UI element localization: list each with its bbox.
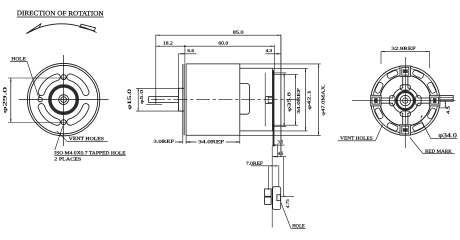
dim phi5.0 shelf xyxy=(146,103,162,105)
rear face extension up (60.0/4.3) xyxy=(273,45,275,70)
dim 4.3 arrows xyxy=(274,53,278,54)
can front face xyxy=(185,64,187,135)
label VENT HOLES underline xyxy=(67,140,108,142)
dim phi47.0MAX arrows xyxy=(318,64,319,68)
title underline xyxy=(17,16,104,18)
svg-text:34.0REF: 34.0REF xyxy=(198,139,225,144)
dim phi15.0 arrows xyxy=(138,88,139,91)
dim 85.0 line xyxy=(156,34,281,36)
terminal ext vertical xyxy=(283,157,285,196)
svg-text:18.2: 18.2 xyxy=(163,40,174,45)
dim 18.2/60.0 shared tick xyxy=(184,45,186,47)
left view horizontal centerline xyxy=(19,99,109,101)
ext phi42.1 top xyxy=(272,67,307,69)
dim phi29.0 arrow bottom xyxy=(10,119,11,123)
phi5 arrow at shaft bottom edge xyxy=(155,100,156,103)
left view vent slot SW xyxy=(38,104,60,126)
ext phi35.8 top xyxy=(272,72,286,74)
rotation arrow open tail right xyxy=(80,24,96,31)
leader HOLE arrowhead xyxy=(39,95,41,99)
svg-text:4.5: 4.5 xyxy=(445,105,450,114)
dim phi42.1 arrows xyxy=(305,68,306,72)
rear face thin extension down xyxy=(271,147,273,228)
dim 3.0REF line-arrow left xyxy=(175,141,183,143)
dim 34.0REF arrows xyxy=(295,74,296,78)
dim 6.6 line xyxy=(179,53,197,55)
rear section top line xyxy=(240,67,273,69)
bearing boss face xyxy=(178,88,180,111)
ext 7.0REF left xyxy=(268,166,270,190)
svg-text:HOLE: HOLE xyxy=(11,57,26,62)
left view center dot xyxy=(63,99,64,100)
leader HOLE to small hole xyxy=(27,61,38,97)
dim 4.5 right ext lower xyxy=(439,107,449,109)
right view oval hole E xyxy=(416,95,421,105)
svg-text:4.75: 4.75 xyxy=(285,199,290,209)
svg-text:4.5: 4.5 xyxy=(278,151,284,156)
left view tapped hole bottom xyxy=(61,120,66,125)
left view boss ring outline inner xyxy=(51,87,76,112)
right view crimp tab W xyxy=(371,95,381,106)
dim 18.2/60.0 line xyxy=(156,45,274,47)
svg-text:φ47.0MAX.: φ47.0MAX. xyxy=(320,84,325,116)
dim 32.9REF ext left xyxy=(380,52,382,64)
dim 4.3 line xyxy=(265,53,281,55)
right view center dot xyxy=(405,100,406,101)
right view E terminal outline xyxy=(440,95,453,101)
left view vent slot NE xyxy=(67,74,89,96)
dim 7.0REF arrows xyxy=(269,165,273,166)
dim 3.0REF line-arrow right xyxy=(186,141,191,143)
leader VENT HOLES right xyxy=(375,125,382,141)
endbell rear edge xyxy=(271,68,273,131)
right view petal vent SE xyxy=(408,103,431,126)
rotation arrow open head left xyxy=(26,24,40,34)
leader HOLE bottom xyxy=(281,203,291,229)
right view rim vent window 4 xyxy=(386,122,398,131)
extension line can face up xyxy=(184,46,186,64)
dim 7.0REF line xyxy=(251,165,279,167)
ext 34.0REF bottom xyxy=(272,124,297,126)
dim phi29.0 arrow top xyxy=(10,78,11,82)
svg-text:60.0: 60.0 xyxy=(218,40,229,45)
leader phi34.0 xyxy=(421,120,431,139)
left view small hole left xyxy=(38,97,42,101)
ext phi47.0 top xyxy=(240,63,321,65)
svg-text:7.0REF: 7.0REF xyxy=(246,161,264,166)
dim phi42.1 line xyxy=(305,68,307,131)
svg-text:2 PLACES: 2 PLACES xyxy=(54,156,82,161)
right view rim vent window 3 xyxy=(412,122,424,131)
dim phi15.0 line xyxy=(137,88,139,111)
label RED MARK underline xyxy=(423,153,455,155)
can top line xyxy=(186,63,240,65)
svg-text:6.6: 6.6 xyxy=(187,48,194,53)
dim 60.0 arrow right xyxy=(271,46,275,47)
terminal body rounded xyxy=(273,187,281,210)
front plate line 1 xyxy=(182,64,184,135)
right view crimp tab E xyxy=(430,95,440,106)
extension boss tip down xyxy=(178,54,180,89)
right view oval hole N xyxy=(400,85,410,90)
leader RED MARK xyxy=(410,138,423,154)
right view shaft circle xyxy=(403,98,408,103)
dim 4.5 right line xyxy=(444,101,446,108)
right view E terminal inner line 1 xyxy=(440,96,453,98)
svg-text:φ42.1: φ42.1 xyxy=(306,89,311,110)
dim 3.5 arrows xyxy=(272,144,276,145)
label HOLE bottom underline xyxy=(291,227,306,229)
right view petal vent NE xyxy=(408,75,431,98)
left view vent slot SE xyxy=(67,104,89,126)
dim 85.0 arrow right xyxy=(277,35,281,36)
right view rim vent window 5 xyxy=(374,107,383,119)
right view oval hole S xyxy=(400,111,410,116)
can bottom line xyxy=(186,134,240,136)
ext phi47.0 bottom xyxy=(240,134,321,136)
shaft tip edge xyxy=(148,97,150,103)
svg-text:4.3: 4.3 xyxy=(266,48,273,53)
svg-text:φ5.0: φ5.0 xyxy=(139,89,144,104)
svg-text:3.0REF: 3.0REF xyxy=(153,139,174,144)
dim 34.0REF bottom label xyxy=(197,139,227,144)
right view crimp tab N xyxy=(400,66,411,76)
dim phi35.8 line xyxy=(283,73,285,127)
rear bearing bump inner bottom xyxy=(268,101,272,103)
right view rim vent window 6 xyxy=(374,82,383,94)
right view rim vent window 2 xyxy=(427,107,436,119)
left view vertical centerline xyxy=(63,55,65,146)
shaft bottom line xyxy=(149,102,179,104)
bearing boss top xyxy=(179,87,185,89)
ext 7.0REF right xyxy=(278,166,280,186)
shaft top line xyxy=(149,96,179,98)
svg-text:ISO M4.0X0.7 TAPPED HOLE: ISO M4.0X0.7 TAPPED HOLE xyxy=(54,150,126,155)
right view outer rim circle xyxy=(371,66,440,135)
dim 32.9REF ext right xyxy=(429,52,431,68)
dim phi15.0 ext top xyxy=(136,87,179,89)
label phi34.0 underline xyxy=(431,137,458,139)
dim phi47.0MAX line xyxy=(318,64,320,135)
dim 4.5 arrows xyxy=(272,156,276,157)
dim 6.6 arrows xyxy=(179,53,183,54)
left view vent slot NW xyxy=(38,74,60,96)
left view tapped hole top xyxy=(61,75,66,80)
right view crimp tab S xyxy=(400,125,411,135)
dim 34.0REF bottom line xyxy=(186,141,240,143)
svg-text:φ15.0: φ15.0 xyxy=(128,88,133,110)
left view shaft circle xyxy=(59,95,69,105)
dim 4.5 right arrows xyxy=(445,101,446,104)
rear bearing bump inner vertical xyxy=(267,96,269,103)
dim 32.9REF arrows xyxy=(381,51,385,52)
terminal hole window xyxy=(277,195,281,201)
svg-text:φ29.0: φ29.0 xyxy=(3,86,9,113)
dim 32.9REF line xyxy=(381,51,430,53)
can step vertical xyxy=(239,64,241,135)
svg-text:32.9REF: 32.9REF xyxy=(391,46,416,51)
dim 85.0 arrow left xyxy=(156,35,160,36)
leader ISO note to bottom hole xyxy=(55,126,63,150)
right view horizontal centerline xyxy=(352,100,456,102)
phi5 arrow at shaft top edge xyxy=(155,97,156,100)
note ISO underline xyxy=(54,154,125,156)
right view vertical centerline xyxy=(404,57,406,148)
right view inner rim circle xyxy=(373,68,438,133)
rear bearing bump inner top xyxy=(268,97,272,99)
left view inner rim circle xyxy=(29,65,97,133)
ext 3.0REF right xyxy=(185,135,187,143)
right view rim vent window 1 xyxy=(427,82,436,94)
right view endbell circle phi34 xyxy=(380,75,431,126)
rear bearing bump xyxy=(265,96,272,103)
dim phi29.0 dimension line xyxy=(10,78,12,123)
dim 34.0REF bottom arrows xyxy=(186,141,190,142)
leader phi34.0 arrowhead xyxy=(420,115,422,119)
ext 34.0REF step down xyxy=(239,135,241,143)
ext 3.0REF left xyxy=(182,135,184,143)
dim phi35.8 arrows xyxy=(284,73,285,77)
can rib rounded rect xyxy=(240,83,250,114)
rear section bottom line xyxy=(240,130,273,132)
left view boss ring outline outer xyxy=(49,85,79,115)
dim phi15.0 ext bottom xyxy=(136,110,179,112)
right view rim vent window 8 xyxy=(412,70,424,79)
terminal dim line right xyxy=(281,195,294,197)
svg-text:34.0REF: 34.0REF xyxy=(296,87,301,113)
front plate line 2 xyxy=(183,64,185,135)
shaft groove / 18.2 extension line xyxy=(155,35,157,105)
terminal crimp square lower xyxy=(265,197,272,204)
right view petal vent SW xyxy=(380,103,403,126)
rear face thick line xyxy=(273,70,275,147)
left view outer rim circle xyxy=(27,63,99,135)
svg-text:DIRECTION OF ROTATION: DIRECTION OF ROTATION xyxy=(17,10,104,17)
label VENT HOLES right underline xyxy=(338,140,376,142)
brush holder line inside lower xyxy=(264,104,266,127)
ext 34.0REF top xyxy=(272,73,297,75)
right view E terminal inner line 2 xyxy=(440,98,453,100)
dim phi29.0 extension line bottom xyxy=(8,122,67,124)
terminal crimp square upper xyxy=(265,189,272,196)
side view centerline xyxy=(151,99,297,101)
label HOLE underline xyxy=(10,60,27,62)
dim 3.5 line xyxy=(272,144,284,146)
bearing boss bottom xyxy=(179,110,185,112)
brush holder line inside xyxy=(264,73,266,97)
right view bearing circle xyxy=(400,95,410,105)
left view shaft inner circle xyxy=(61,97,67,103)
dim 34.0REF line xyxy=(295,74,297,125)
ext phi42.1 bottom xyxy=(272,130,307,132)
left view boss ring (thick) xyxy=(50,86,77,113)
svg-text:85.0: 85.0 xyxy=(233,30,245,35)
dim 4.5 line xyxy=(272,156,286,158)
svg-text:φ35.8: φ35.8 xyxy=(287,91,292,112)
dim 18.2 arrow left xyxy=(156,46,160,47)
svg-text:3.5: 3.5 xyxy=(278,139,284,144)
right view petal vent NW xyxy=(380,75,403,98)
leader VENT HOLES xyxy=(57,131,67,141)
right view rim vent window 7 xyxy=(386,70,398,79)
rotation arrow arc xyxy=(26,24,96,34)
ext 4.5/3.5 xyxy=(276,144,278,157)
svg-text:RED MARK: RED MARK xyxy=(425,150,453,155)
right view oval hole W xyxy=(390,95,395,105)
dim phi29.0 extension line top xyxy=(8,77,67,79)
terminal gray vertical xyxy=(280,35,282,158)
ext phi35.8 bottom xyxy=(272,126,286,128)
right view bearing ring thick xyxy=(397,92,415,110)
